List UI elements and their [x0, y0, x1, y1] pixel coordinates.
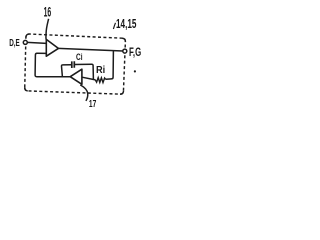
- svg-text:Ri: Ri: [96, 64, 105, 76]
- wire feedback into A1 lower input: [35, 53, 70, 76]
- pin 16 lead wire: [46, 19, 49, 41]
- wire A1 output to F,G: [58, 48, 123, 51]
- IC outline dashed box 14,15: [25, 34, 126, 94]
- terminal D,E circle: [23, 40, 27, 44]
- terminal F,G circle: [123, 49, 127, 53]
- capacitor Ci right wire and riser: [75, 64, 94, 80]
- resistor Ri zigzag: [95, 78, 106, 83]
- svg-text:Ci: Ci: [76, 52, 83, 63]
- capacitor Ci plates: [72, 61, 75, 68]
- svg-text:D,E: D,E: [9, 37, 20, 49]
- capacitor Ci left wire and riser: [61, 65, 71, 77]
- wire D,E input: [27, 42, 46, 43]
- pin 17 lead wire: [80, 85, 87, 101]
- stray dot mark: [134, 70, 136, 72]
- op-amp A2 (left-pointing): [70, 69, 82, 84]
- box corner arcs: [25, 34, 126, 94]
- svg-text:16: 16: [44, 4, 52, 19]
- wire A2 input from resistor: [82, 77, 95, 80]
- wire feedback tap down from output node: [106, 51, 114, 80]
- op-amp A1: [46, 39, 58, 56]
- svg-text:14,15: 14,15: [116, 17, 136, 31]
- leader tick for 14,15: [113, 23, 115, 29]
- svg-text:F,G: F,G: [129, 47, 141, 59]
- svg-text:17: 17: [89, 99, 97, 110]
